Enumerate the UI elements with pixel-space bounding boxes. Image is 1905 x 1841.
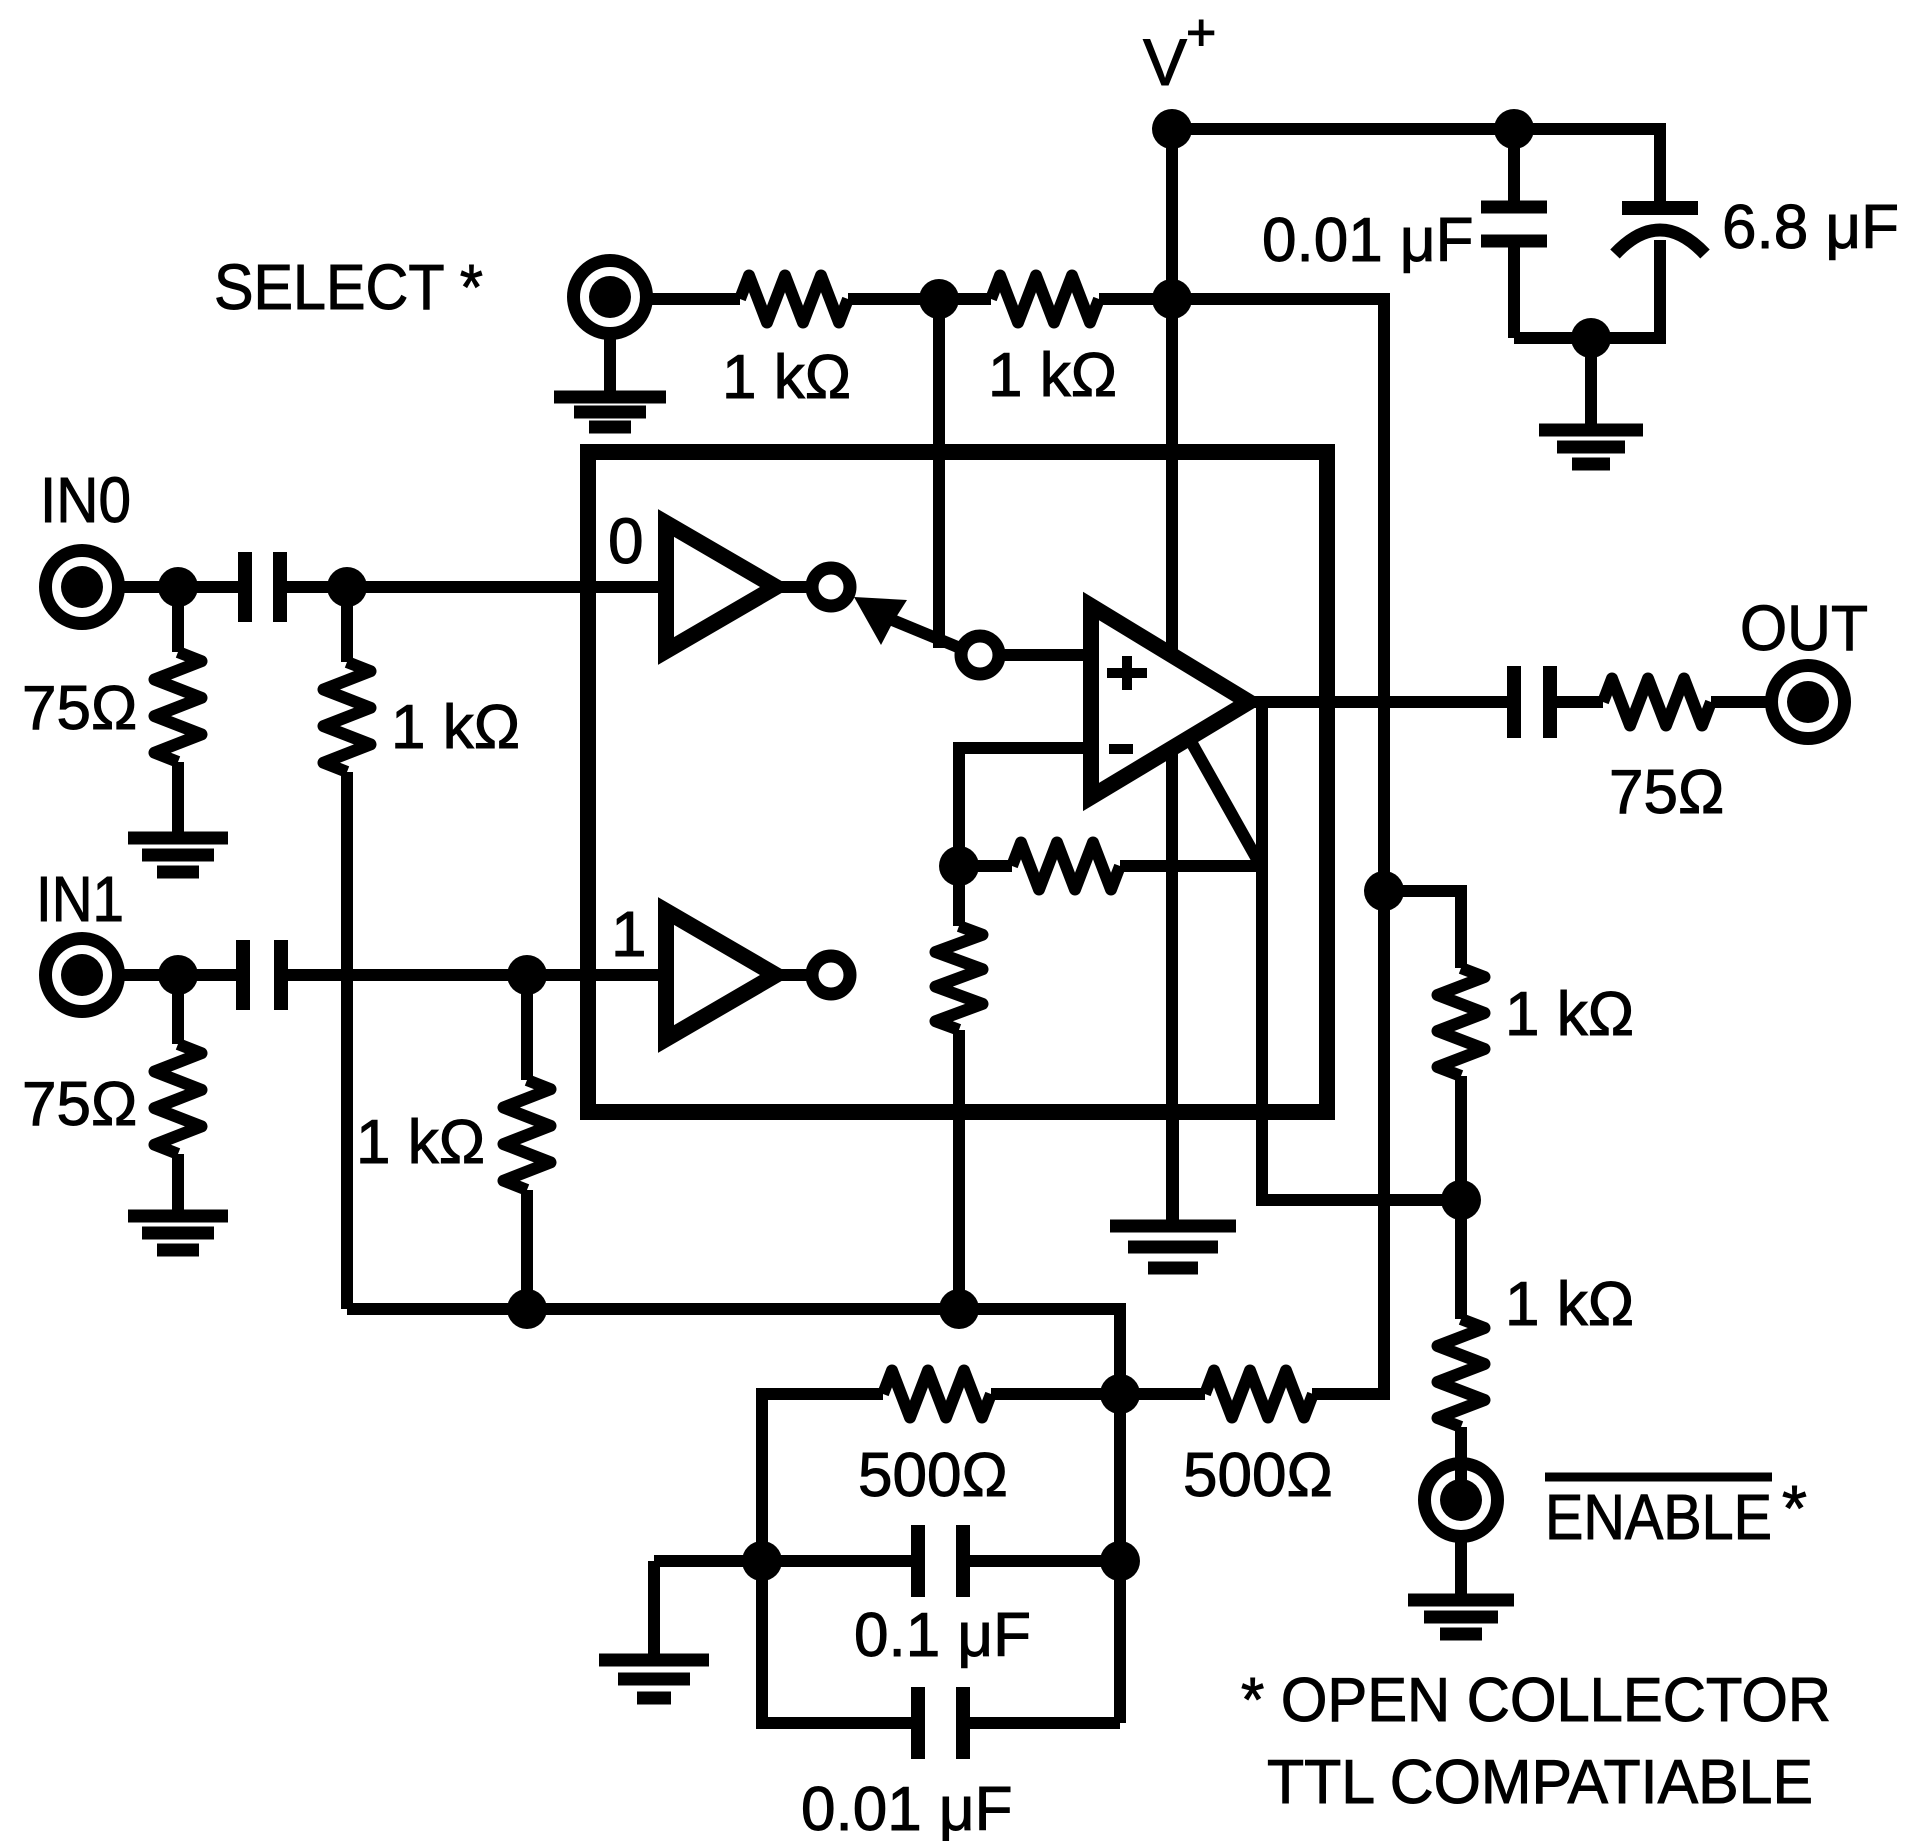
node cap ground junction [1571, 318, 1611, 358]
node feedback junction [939, 846, 979, 886]
resistor R10 1k upper right [1384, 891, 1461, 968]
svg-text:1 kΩ: 1 kΩ [356, 1108, 485, 1177]
IC box outline [588, 452, 1327, 1112]
svg-text:0.1 μF: 0.1 μF [854, 1601, 1031, 1670]
node ladder / rail [939, 1289, 979, 1329]
buffer A1 bubble [812, 956, 850, 994]
node IN1 bias / rail [507, 1289, 547, 1329]
resistor R5 75 (IN1 term) [172, 975, 184, 1044]
ground: IN0 [128, 832, 228, 845]
svg-text:* OPEN COLLECTOR: * OPEN COLLECTOR [1241, 1666, 1831, 1735]
buffer A0 output stub [776, 581, 812, 593]
op-amp - symbol [1109, 744, 1133, 754]
ground: SELECT stem [604, 333, 616, 392]
resistor R12 500 left [762, 1394, 883, 1561]
ground: ENABLE stem [1455, 1540, 1467, 1595]
svg-text:1: 1 [611, 898, 647, 970]
ground: SELECT [554, 391, 666, 404]
connector IN0 [46, 551, 119, 624]
wire: bottom bias rail [347, 1309, 1120, 1723]
svg-text:6.8 μF: 6.8 μF [1722, 193, 1899, 262]
svg-text:+: + [1186, 4, 1216, 62]
wire: ground stem [1585, 338, 1597, 424]
resistor R8 feedback [959, 860, 1012, 872]
switch lever [890, 619, 960, 648]
op-amp gain diagonal [1185, 731, 1262, 868]
wire: cap bottoms join [1514, 332, 1660, 344]
svg-text:TTL COMPATIABLE: TTL COMPATIABLE [1267, 1748, 1813, 1817]
wire: R1 to R2 [848, 293, 991, 305]
connector ENABLE [1425, 1464, 1498, 1537]
node IN1 1k junction [507, 955, 547, 995]
wire: V+ vertical down through box [1166, 129, 1178, 1220]
resistor R1 1k (SELECT) [740, 276, 848, 323]
node V+ / R2 junction [1152, 279, 1192, 319]
capacitor C2 6.8uF bottom stem [1654, 240, 1666, 344]
node enable row junction [1441, 1180, 1481, 1220]
switch arrowhead [854, 597, 907, 645]
svg-text:*: * [1782, 1472, 1807, 1544]
resistor R6 1k (IN1 bias) [521, 975, 533, 1080]
wire: SELECT to R1 [646, 293, 740, 305]
svg-text:75Ω: 75Ω [1609, 758, 1724, 827]
svg-text:0.01 μF: 0.01 μF [801, 1775, 1013, 1841]
wire: cap to buffer 1 input [288, 969, 668, 981]
capacitor C2 6.8uF curved plate [1615, 230, 1705, 254]
svg-text:75Ω: 75Ω [22, 674, 137, 743]
node 500 mid junction [1100, 1374, 1140, 1414]
ground: filter stem [648, 1561, 660, 1655]
node IN0 term junction [158, 567, 198, 607]
svg-text:IN1: IN1 [36, 863, 124, 935]
node 0.1uF left [742, 1541, 782, 1581]
op-amp U1 internal: ladder resistor R7 [953, 866, 965, 926]
wire: 75 ohm to OUT connector [1711, 696, 1771, 708]
wire: IN0 to cap [118, 581, 238, 593]
capacitor C1 0.01uF stem [1508, 129, 1520, 201]
wire: IN1 to cap [118, 969, 236, 981]
svg-text:IN0: IN0 [40, 464, 131, 536]
capacitor C1 0.01uF plates [1481, 201, 1547, 214]
capacitor C1 0.01uF bottom stem [1508, 247, 1520, 338]
wire: cap to 75 ohm [1557, 696, 1603, 708]
label ENABLE overline [1545, 1473, 1772, 1482]
op-amp U1 triangle [1091, 606, 1249, 797]
capacitor C7 0.01uF bottom [762, 1561, 911, 1723]
connector OUT [1772, 666, 1845, 739]
ground: ENABLE [1408, 1594, 1514, 1607]
wire: IN0 bias stem down [341, 772, 353, 1309]
svg-text:SELECT *: SELECT * [214, 251, 483, 323]
capacitor C6 0.1uF [762, 1555, 911, 1567]
svg-text:75Ω: 75Ω [22, 1070, 137, 1139]
resistor R11 1k enable pulldown [1438, 1319, 1485, 1427]
svg-text:0: 0 [608, 505, 644, 577]
capacitor C5 output coupling [1507, 666, 1521, 738]
wire: output node vertical to enable row [1262, 702, 1461, 1200]
svg-text:1 kΩ: 1 kΩ [391, 693, 520, 762]
resistor R13 500 right [1120, 1388, 1205, 1400]
ground: IC mid pin [1167, 1112, 1179, 1220]
ground: IN1 [128, 1210, 228, 1223]
capacitor C2 6.8uF top plate [1622, 201, 1698, 215]
connector IN1 [46, 939, 119, 1012]
node V+ junction at 0.01uF [1494, 109, 1534, 149]
wire: inverting input run [959, 748, 1091, 866]
wire: cap to buffer 0 input [287, 581, 668, 593]
svg-text:OUT: OUT [1740, 592, 1868, 664]
svg-text:1 kΩ: 1 kΩ [722, 343, 851, 412]
node R10 tap junction [1364, 871, 1404, 911]
svg-text:500Ω: 500Ω [1183, 1441, 1333, 1510]
capacitor C4 coupling IN1 [236, 940, 250, 1010]
svg-text:1 kΩ: 1 kΩ [1505, 1270, 1634, 1339]
wire: V+ rail [1172, 129, 1660, 202]
svg-text:1 kΩ: 1 kΩ [988, 341, 1117, 410]
buffer A0 triangle [666, 523, 776, 651]
svg-text:1 kΩ: 1 kΩ [1505, 980, 1634, 1049]
buffer A0 bubble [812, 568, 850, 606]
wire: R2 to V+ and over to right [1099, 299, 1384, 1394]
wire: 0.1uF row left stub to ground [654, 1555, 762, 1567]
buffer A1 triangle [666, 911, 776, 1039]
node IN0 1k junction [327, 567, 367, 607]
wire: op-amp output to OUT cap [1249, 696, 1507, 708]
capacitor C3 coupling IN0 [238, 552, 252, 622]
connector SELECT [574, 261, 647, 334]
node IN1 term junction [158, 955, 198, 995]
buffer A1 output stub [776, 969, 812, 981]
switch pivot contact [961, 636, 999, 674]
wire: switch control stub [933, 299, 945, 648]
svg-text:ENABLE: ENABLE [1545, 1481, 1772, 1553]
svg-text:0.01 μF: 0.01 μF [1262, 206, 1474, 275]
op-amp + symbol [1107, 668, 1147, 678]
node V+ junction left [1152, 109, 1192, 149]
ground: bypass caps [1539, 424, 1643, 437]
node 0.1uF right [1100, 1541, 1140, 1581]
ground: filter [599, 1654, 709, 1667]
resistor R4 1k (IN0 bias) + long stem to bottom rail [341, 587, 353, 662]
resistor R2 1k (to V+) [991, 276, 1099, 323]
resistor R9 75 output [1603, 679, 1711, 726]
node SELECT/switch junction [919, 279, 959, 319]
svg-text:V: V [1143, 25, 1187, 99]
resistor R3 75 (IN0 term) [172, 587, 184, 652]
wire: pivot to op-amp + input [999, 649, 1091, 661]
svg-text:500Ω: 500Ω [858, 1441, 1008, 1510]
